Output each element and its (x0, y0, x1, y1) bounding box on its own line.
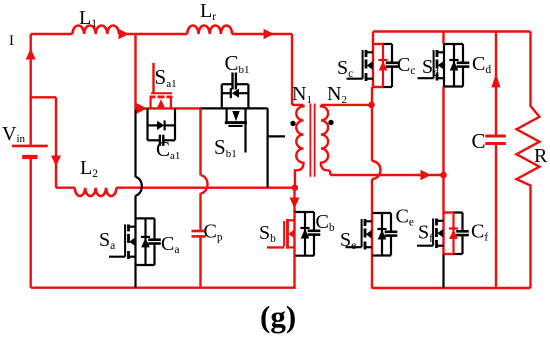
resistor R (517, 32, 540, 289)
arrow secondary current (421, 170, 432, 181)
label Cb (316, 211, 335, 234)
wire leg node A red part (134, 34, 136, 108)
wire bottom rail left (31, 287, 296, 289)
wire Se leg bottom (371, 256, 373, 289)
label L2 (80, 157, 98, 180)
inductor L2 (75, 188, 117, 196)
label Sa1 (155, 65, 177, 90)
wire Sc-Se leg with hop (372, 87, 381, 213)
wire Sd leg top (442, 32, 444, 45)
wire Vin top stub down to L2 (31, 97, 56, 187)
label Vin (2, 123, 26, 145)
transistor Se (346, 213, 398, 256)
transistor Sd (418, 44, 470, 87)
wire Sd leg to node (442, 87, 444, 176)
label Cd (472, 53, 491, 76)
capacitor Cp (192, 108, 208, 287)
label Sd (422, 56, 439, 79)
transformer primary N1 (295, 105, 304, 188)
wire Sf leg bottom black (442, 254, 444, 288)
arrow after L1 (119, 29, 130, 40)
label Sb (259, 222, 276, 245)
battery Vin (12, 146, 48, 157)
svg-text:(g): (g) (260, 299, 296, 334)
label Cb1 (225, 51, 250, 76)
label R (534, 145, 548, 167)
arrow current I (26, 49, 36, 60)
arrow output current (491, 73, 500, 87)
wire top (Vin+ to transformer) (31, 33, 292, 35)
label Sc (337, 57, 353, 80)
wire Sb leg from node (293, 188, 295, 212)
wire bottom rail right (372, 287, 531, 289)
wire left vertical (input) (30, 34, 32, 288)
label Lr (200, 0, 216, 23)
arrow down to L2 (51, 156, 61, 167)
inductor L1 (73, 26, 119, 35)
wire leg node A black part with hop (136, 108, 142, 218)
label I (9, 33, 14, 49)
inductor Lr (187, 26, 232, 35)
capacitor-diode Ca1 (148, 108, 176, 145)
svg-text:I: I (9, 33, 14, 49)
wire Sb1 right leg (267, 108, 269, 187)
label Ca (161, 233, 179, 256)
transistor Sa (109, 218, 161, 265)
wire mid rail red part (135, 107, 202, 109)
transformer core (310, 104, 314, 177)
arrow into Sb (290, 198, 300, 209)
label Sb1 (214, 135, 237, 160)
wire Sc leg top (372, 32, 374, 45)
caption (g) (260, 299, 296, 334)
transformer secondary N2 (321, 105, 330, 175)
wire mid rail black part (201, 107, 268, 109)
label C (472, 129, 486, 153)
wire N2 bottom to bridge (330, 174, 443, 176)
transistor Sb1 (225, 108, 247, 152)
label Cc (397, 54, 415, 77)
capacitor-diode Cb1 (222, 73, 249, 109)
polarity dot N2 (328, 120, 333, 125)
node switching left (292, 184, 299, 191)
transistor Sa1 (150, 63, 173, 108)
stub near transformer (268, 135, 285, 137)
arrow after Lr (264, 29, 275, 40)
wire Sb leg to bottom rail (293, 256, 295, 288)
label N1 (292, 83, 312, 106)
label Cf (471, 221, 488, 244)
label L1 (79, 7, 97, 30)
wire Sa leg to bottom (134, 265, 136, 288)
arrow on mid rail (137, 103, 148, 114)
node N2b-Sd junction (440, 172, 447, 179)
label Cp (204, 221, 223, 244)
label Ca1 (156, 137, 180, 162)
node N2-Sc junction (368, 102, 375, 109)
wire top rail right (373, 30, 531, 32)
transistor Sb (267, 212, 320, 256)
label Sa (99, 229, 115, 252)
transistor Sf (417, 213, 469, 255)
wire Lr to N1 top (292, 34, 304, 105)
label Ce (396, 206, 414, 229)
polarity dot N1 (290, 121, 295, 126)
wire L2 rail (56, 186, 296, 188)
wire node to Sf (442, 175, 444, 213)
label Se (340, 229, 356, 252)
wire N2 top to bridge (321, 104, 372, 106)
label N2 (327, 83, 347, 106)
transistor Sc (347, 44, 399, 87)
svg-text:R: R (534, 145, 548, 167)
capacitor C (485, 32, 506, 289)
label Sf (418, 222, 433, 245)
svg-text:C: C (472, 129, 486, 153)
